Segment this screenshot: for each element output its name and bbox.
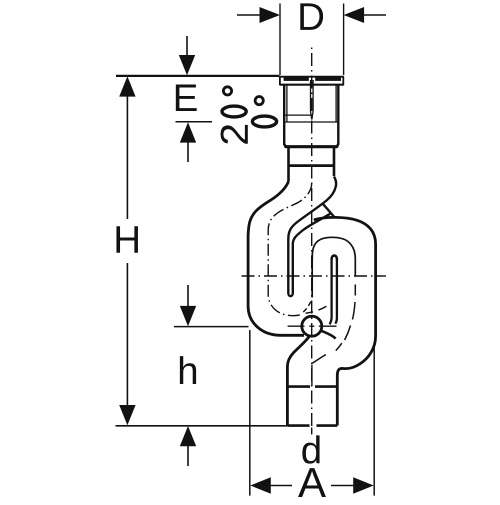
circle crosshair horizontal (288, 325, 337, 327)
standpipe left line (330, 259, 332, 324)
h top arrow (pointing down) (180, 285, 196, 326)
rotated angle label 20deg: digit 2 (221, 125, 248, 144)
flange bottom line (280, 84, 343, 86)
outlet left contour (287, 336, 309, 426)
pipe joint line (289, 164, 335, 167)
E bottom arrow (pointing up) (180, 122, 196, 162)
socket right wall (337, 85, 339, 145)
bottom extension line (bottom of outlet) (116, 425, 289, 427)
dimension line D left with arrow (237, 7, 280, 23)
arch left leg hidden continuation (dashed) (303, 302, 311, 313)
E bottom line (176, 121, 213, 123)
H dimension line lower segment (126, 263, 128, 407)
flange seal bar (filled) (284, 77, 309, 81)
centerline dash below outlet (311, 428, 313, 435)
extension line D right (343, 4, 345, 76)
rotated angle label 20deg: degree ring (223, 87, 231, 95)
dimension D label (300, 3, 323, 29)
insertion depth taper mark (311, 80, 314, 120)
A extension line left (249, 330, 251, 496)
dimension line D right with arrow (344, 7, 386, 23)
arch left leg (311, 258, 313, 298)
dimension A label (298, 468, 326, 497)
rotated angle label 20deg: digit 0 (condensed) (222, 106, 246, 117)
pipe right wall below shoulder (333, 147, 336, 176)
A dimension line left with arrow (pointing left) (250, 477, 292, 493)
dimension h label (180, 356, 196, 384)
vertical centerline (dash-dot) (311, 48, 313, 435)
socket left wall (283, 85, 285, 145)
H top arrow (pointing up) (119, 76, 135, 96)
H dimension line upper segment (126, 95, 128, 219)
hidden channel floor rising dashes (306, 312, 314, 313)
pipe left wall below shoulder (287, 147, 290, 181)
socket inner wall left (286, 85, 288, 122)
rotated angle label 0deg: degree ring (255, 97, 263, 105)
body dome and outer contour right (314, 217, 376, 425)
dimension E label (176, 85, 197, 111)
body outer contour left (248, 182, 304, 336)
rotated angle label 0deg: digit 0 (condensed) (252, 116, 276, 127)
inlet tube wall pair (outer+inner with bottom cap) (288, 177, 336, 297)
h top line (outlet axis extension) (174, 326, 249, 328)
dimension H label (116, 226, 138, 252)
standpipe cap (332, 256, 337, 260)
inner arch (inverted U) (312, 237, 355, 259)
standpipe right line (335, 259, 337, 323)
socket inner line upper (left half) (284, 114, 312, 116)
A extension line right (373, 345, 375, 496)
horizontal centerline of trap body (dash-dot) (239, 275, 387, 277)
hidden inner wall right channel (dashed) (354, 285, 356, 296)
socket inner line lower (full) (284, 121, 338, 123)
top extension line (top of fitting) (116, 75, 280, 77)
outlet socket line (288, 385, 337, 388)
dimension d label (302, 435, 319, 463)
extension line D left (279, 4, 281, 76)
V junction branch line (322, 203, 334, 217)
H bottom arrow (pointing down) (119, 405, 135, 425)
circle-to-right hidden wall junction (320, 330, 336, 338)
arch right leg (354, 260, 356, 277)
E top arrow (pointing down) (179, 36, 195, 75)
socket shoulder (284, 144, 338, 147)
bend centerline of flow path (dash-dot) (268, 183, 312, 316)
h bottom arrow (pointing up) (180, 426, 196, 466)
flange outline (280, 77, 343, 85)
A dimension line right with arrow (pointing right) (331, 477, 374, 493)
socket inner wall right (335, 85, 337, 122)
outlet bottom end (288, 424, 337, 427)
outlet circle (302, 316, 322, 336)
